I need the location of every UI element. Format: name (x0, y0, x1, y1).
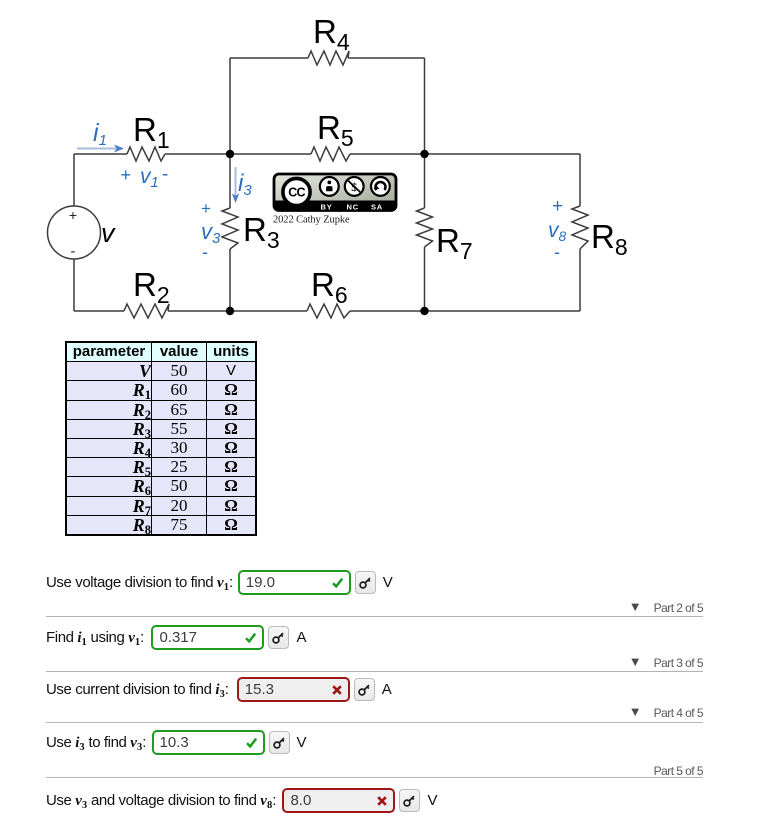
CC license badge (274, 174, 396, 212)
question part 5 (46, 788, 437, 813)
svg-text:v8: v8 (548, 219, 567, 244)
component labels (133, 13, 628, 308)
wire node A up to R4 row (229, 58, 231, 154)
svg-text:CC: CC (288, 185, 305, 199)
svg-text:v: v (101, 218, 116, 248)
wire node A down to R3 (229, 154, 231, 208)
NC icon (345, 177, 364, 196)
polarity + v8 - (548, 196, 567, 262)
wire R2 to R6 through node C (168, 310, 307, 312)
resistor R4 (308, 51, 349, 65)
svg-text:i3: i3 (238, 170, 252, 199)
question part 2 (46, 625, 306, 650)
polarity + v3 - (201, 199, 221, 262)
resistor R7 (417, 208, 433, 247)
BY NC SA band text (321, 203, 384, 212)
svg-text:-: - (71, 243, 76, 260)
svg-text:+: + (121, 165, 132, 185)
resistor R2 (124, 304, 169, 318)
current arrow i3 (232, 167, 239, 203)
BY icon (320, 177, 339, 196)
big CC logo (283, 178, 310, 205)
wire R7 to node D (424, 247, 426, 311)
voltage source polarity marks (69, 207, 77, 260)
wire left vertical top (source to R1 row) (73, 154, 75, 206)
resistor R8 (572, 206, 588, 249)
svg-text:BY: BY (321, 203, 333, 212)
node B junction dot (420, 150, 428, 158)
node C junction dot (226, 307, 234, 315)
svg-text:i1: i1 (93, 119, 107, 149)
wire R5 to R8 branch through node B (350, 153, 580, 155)
wire R8 top lead (579, 154, 581, 206)
question part 4 (46, 730, 307, 755)
question part 3 (46, 677, 392, 702)
svg-text:R5: R5 (317, 109, 354, 151)
svg-text:NC: NC (347, 203, 359, 212)
wire right vertical of R4 loop (424, 58, 426, 154)
polarity + v1 - (121, 164, 169, 191)
svg-text:R7: R7 (436, 222, 473, 264)
svg-text:v1: v1 (140, 165, 159, 191)
resistor R1 (127, 147, 165, 161)
wire R3 to bottom node C (229, 249, 231, 311)
svg-text:-: - (554, 242, 560, 262)
wire R4 row left segment (230, 57, 308, 59)
svg-text:R6: R6 (311, 266, 348, 308)
resistor R6 (307, 304, 350, 318)
current arrow i1 (77, 145, 124, 153)
wire R8 bottom lead (579, 249, 581, 311)
wire bottom row V to R2 (74, 310, 124, 312)
svg-text:R1: R1 (133, 111, 170, 153)
wire node B down to R7 (424, 154, 426, 208)
svg-text:R2: R2 (133, 266, 170, 308)
resistor R5 (311, 147, 350, 161)
svg-text:+: + (69, 207, 77, 223)
svg-text:-: - (202, 242, 208, 262)
wire top row segment V to R1 (74, 153, 127, 155)
wire R6 to R8 branch bottom through node D (350, 310, 580, 312)
svg-text:-: - (162, 164, 168, 185)
svg-text:+: + (201, 199, 211, 218)
svg-text:2022 Cathy Zupke: 2022 Cathy Zupke (273, 215, 350, 226)
svg-text:+: + (552, 196, 563, 217)
question part 1 (46, 570, 393, 595)
circuit schematic (0, 0, 765, 340)
wire left vertical bottom (source to R2 row) (73, 259, 75, 311)
wire R1 to R5 through node A (165, 153, 311, 155)
svg-text:R8: R8 (591, 218, 628, 260)
wire R4 row right segment (348, 57, 425, 59)
svg-text:R4: R4 (313, 13, 350, 55)
parameter table (65, 341, 257, 536)
voltage source V circle (48, 206, 101, 259)
SA icon (371, 177, 390, 196)
resistor R3 (222, 208, 238, 249)
node D junction dot (420, 307, 428, 315)
svg-text:SA: SA (371, 203, 383, 212)
node A junction dot (226, 150, 234, 158)
